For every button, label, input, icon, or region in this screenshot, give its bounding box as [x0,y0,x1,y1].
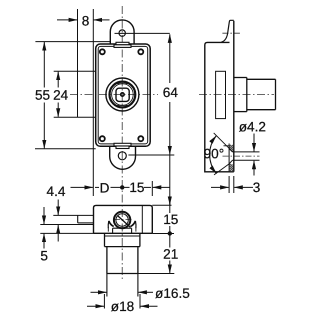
svg-text:5: 5 [40,248,48,263]
svg-text:4.4: 4.4 [47,184,66,199]
svg-text:8: 8 [82,13,90,28]
svg-text:ø4.2: ø4.2 [239,119,266,134]
svg-text:15: 15 [129,180,144,195]
svg-text:55: 55 [35,88,50,103]
svg-text:64: 64 [163,85,179,100]
svg-text:ø18: ø18 [111,299,134,314]
svg-text:ø16.5: ø16.5 [155,286,190,301]
svg-text:21: 21 [163,247,178,262]
svg-text:3: 3 [253,180,261,195]
svg-text:24: 24 [53,88,69,103]
svg-text:15: 15 [163,212,178,227]
svg-text:90°: 90° [204,146,225,161]
svg-text:D: D [100,180,110,195]
